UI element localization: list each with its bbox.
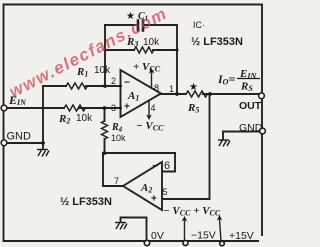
pin8 arrow — [151, 72, 153, 88]
resistor R3 — [134, 47, 154, 53]
+Vcc supply arrow — [220, 219, 222, 241]
terminal 0V — [144, 240, 149, 245]
svg-text:½ LF353N: ½ LF353N — [60, 196, 112, 208]
svg-text:3: 3 — [111, 103, 116, 113]
svg-text:OUT: OUT — [239, 100, 262, 112]
svg-text:0V: 0V — [151, 230, 164, 242]
terminal GND left — [1, 140, 7, 146]
svg-text:−: − — [153, 161, 159, 172]
wire R3 branch — [105, 49, 177, 51]
pin 2 contact dot — [119, 85, 122, 88]
resistor R2 — [64, 105, 86, 111]
pin4 arrow — [148, 101, 150, 117]
resistor R5 — [186, 91, 208, 97]
wire 0V bracket — [121, 218, 147, 241]
junction node GND bus — [41, 141, 45, 145]
wire gnd stub — [42, 143, 44, 149]
wire A1 output — [161, 93, 259, 95]
arrowhead -Vcc supply — [182, 216, 188, 222]
junction node pin 3 / R2 / R4 — [103, 106, 107, 110]
svg-text:10k: 10k — [76, 113, 93, 124]
svg-text:+: + — [151, 194, 157, 205]
wire pin5 line — [163, 198, 210, 200]
wire C1 branch — [105, 24, 177, 26]
junction node R5 / OUT / sense — [208, 92, 212, 96]
svg-text:4: 4 — [151, 103, 156, 113]
terminal +15V — [220, 241, 225, 246]
svg-text:+: + — [124, 102, 130, 113]
ground left — [37, 150, 49, 157]
wire R4 vertical — [104, 108, 106, 153]
junction node pin 2 / R1 / R3 feedback — [103, 84, 107, 88]
svg-text:1: 1 — [169, 84, 174, 94]
arrowhead +Vcc supply — [217, 215, 223, 221]
arrowhead pin 4 -Vcc — [146, 115, 152, 121]
svg-text:2: 2 — [111, 76, 116, 86]
wire R1 branch (gnd to pin 2) — [43, 85, 121, 87]
ground right (near OUT GND) — [218, 140, 230, 147]
wire feedback left vertical — [104, 25, 106, 86]
-Vcc supply arrow — [184, 220, 186, 241]
wire E_IN line to pin 3 — [6, 107, 121, 109]
wire feedback right vertical — [176, 25, 178, 94]
resistor R4 — [102, 121, 108, 139]
junction R3 left — [103, 48, 106, 51]
svg-text:5: 5 — [163, 187, 168, 197]
arrowhead pin 8 +Vcc — [149, 68, 155, 74]
wire sense vertical from R5 junction — [209, 94, 211, 199]
junction node A1 output / feedback — [175, 92, 179, 96]
svg-text:8: 8 — [154, 83, 159, 93]
border frame — [4, 5, 263, 242]
terminal E_IN — [1, 105, 7, 111]
capacitor C1 — [138, 21, 143, 31]
junction node R4 / A2 output — [103, 151, 107, 155]
resistor R1 — [66, 83, 88, 89]
terminal -15V — [183, 241, 188, 246]
junction R3 right — [175, 48, 178, 51]
svg-text:10k: 10k — [94, 65, 111, 76]
equation fraction bar — [237, 78, 260, 80]
pin 3 contact dot — [119, 107, 122, 110]
svg-text:GND: GND — [7, 131, 32, 143]
wire A2 output vertical — [103, 153, 123, 186]
wire pin6 hook — [163, 153, 176, 172]
wire OUT GND branch — [223, 132, 260, 140]
wire A2 loop top — [103, 152, 175, 154]
svg-text:GND: GND — [239, 122, 263, 134]
svg-text:6: 6 — [164, 160, 170, 172]
wire GND terminal line — [6, 142, 43, 144]
svg-text:★: ★ — [189, 82, 198, 93]
op-amp A1 — [121, 70, 162, 117]
svg-text:−: − — [124, 78, 130, 89]
svg-text:½ LF353N: ½ LF353N — [191, 36, 243, 48]
svg-text:10k: 10k — [143, 37, 160, 48]
wire vertical gnd bus left — [42, 86, 44, 143]
svg-text:−15V: −15V — [191, 230, 216, 242]
ground 0V — [115, 223, 127, 230]
svg-text:10k: 10k — [111, 133, 126, 143]
svg-text:IC·: IC· — [193, 20, 205, 30]
terminal GND right — [260, 128, 266, 134]
svg-text:7: 7 — [114, 176, 119, 186]
terminal OUT — [259, 93, 265, 99]
op-amp A2 — [123, 162, 162, 210]
svg-text:+15V: +15V — [229, 230, 254, 242]
